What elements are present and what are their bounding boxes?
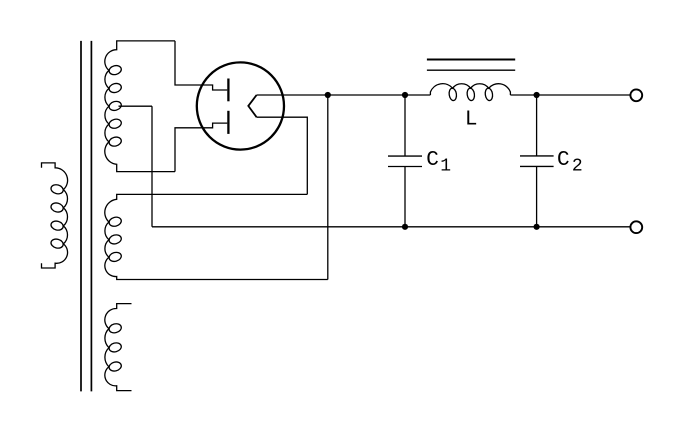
filter choke L xyxy=(430,84,510,101)
rectifier filament winding xyxy=(105,194,328,279)
wire: filament bottom lead down to filament winding xyxy=(257,117,308,194)
rectifier tube envelope xyxy=(197,62,284,149)
primary winding of transformer xyxy=(42,163,68,268)
svg-text:C: C xyxy=(557,149,570,172)
wire: negative output rail xyxy=(152,226,630,228)
label C1 xyxy=(426,149,451,177)
svg-text:2: 2 xyxy=(572,156,583,176)
center tap lead of HV secondary xyxy=(119,105,153,107)
wire: HV top end to upper plate (via jog) xyxy=(175,41,227,90)
wire: B+ rail from L to output terminal xyxy=(510,94,630,96)
label C2 xyxy=(557,149,583,177)
junction dot: C2 bottom xyxy=(534,224,540,230)
lower plate (anode) of rectifier xyxy=(227,111,229,134)
junction dot: C2 top xyxy=(534,92,540,98)
spare filament winding (open leads) xyxy=(105,304,132,391)
wire: HV bottom end to lower plate (via jog) xyxy=(175,123,227,172)
iron core bars of choke L xyxy=(427,60,515,71)
output terminal B+ xyxy=(630,89,642,101)
svg-text:1: 1 xyxy=(440,156,451,176)
capacitor C1 xyxy=(388,95,422,227)
wire: center tap down to negative rail xyxy=(151,106,153,227)
output terminal B- xyxy=(630,221,642,233)
filament / cathode chevron of rectifier xyxy=(248,95,256,117)
wire: B+ rail from filament top lead to inductor L xyxy=(257,94,431,96)
wire: junction to filament winding bottom end xyxy=(327,95,329,280)
junction dot: C1 top xyxy=(402,92,408,98)
svg-text:L: L xyxy=(465,109,478,132)
high-voltage secondary winding (center-tapped) xyxy=(105,41,175,172)
upper plate (anode) of rectifier xyxy=(227,79,229,102)
svg-text:C: C xyxy=(426,149,439,172)
capacitor C2 xyxy=(520,95,554,227)
junction dot: C1 bottom xyxy=(402,224,408,230)
transformer T core laminations xyxy=(81,41,91,392)
junction dot: filament top / B+ xyxy=(325,92,331,98)
